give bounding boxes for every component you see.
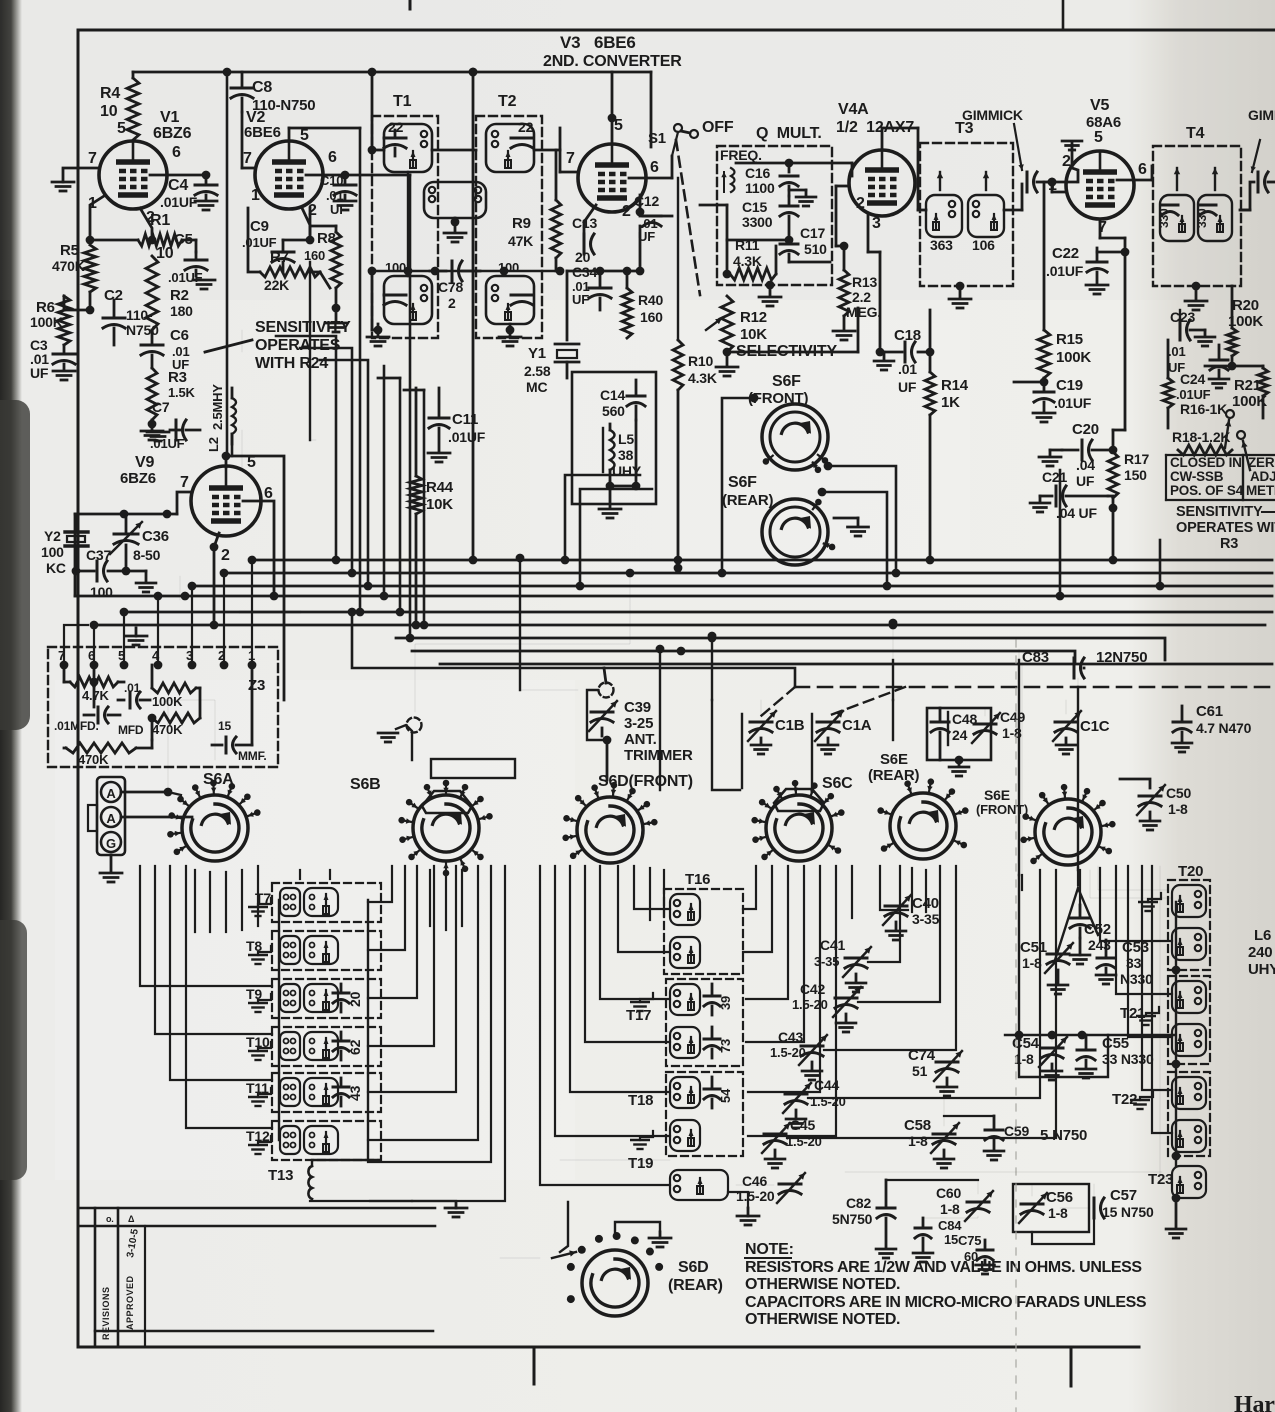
svg-text:.01UF: .01UF xyxy=(160,194,198,210)
junction xyxy=(86,236,95,245)
transformer T11 box xyxy=(272,1073,381,1112)
wire pin1 V1 xyxy=(90,196,104,240)
svg-text:C15: C15 xyxy=(742,199,767,215)
box closed-in divider xyxy=(1242,455,1244,500)
wire V5 pin6 xyxy=(1117,179,1152,182)
wire bus-to-c39 line xyxy=(352,612,795,687)
wire s6c fan6 xyxy=(748,866,836,1136)
svg-text:UF: UF xyxy=(898,379,917,395)
wire V9 pin2 xyxy=(214,533,219,625)
wire drop s6dcontacts xyxy=(659,649,661,790)
wire S1 dashes xyxy=(676,140,700,295)
capacitor C78 xyxy=(451,261,454,281)
wire bus 9 xyxy=(440,663,1272,666)
T7 coil left xyxy=(280,888,300,916)
wire T1 bot left xyxy=(371,271,374,330)
wire right drop 1 xyxy=(1059,470,1062,596)
wire box bottom xyxy=(635,420,638,486)
svg-text:C83: C83 xyxy=(1022,649,1049,666)
trimmer C42 xyxy=(835,997,857,1000)
wire pin6 col xyxy=(409,175,412,638)
svg-text:15: 15 xyxy=(218,719,231,733)
wire C83 drop xyxy=(1077,678,1079,687)
tube V3 xyxy=(578,144,646,212)
wire mid rail xyxy=(372,270,560,273)
ground C21 xyxy=(1039,496,1042,502)
title block divider xyxy=(144,1226,146,1347)
wire t22b feed xyxy=(1152,866,1172,1133)
wire T1-T2 link xyxy=(432,149,476,152)
ground T9 xyxy=(258,994,271,1003)
wire C8 col xyxy=(241,112,243,168)
svg-text:22: 22 xyxy=(518,119,534,135)
wire S6D rear left xyxy=(500,1257,540,1259)
svg-text:FREQ.: FREQ. xyxy=(720,147,762,163)
svg-text:OPERATES WITH: OPERATES WITH xyxy=(1176,520,1275,536)
terminal A2 xyxy=(101,807,121,827)
svg-text:CLOSED IN: CLOSED IN xyxy=(1170,455,1242,470)
junction bus xyxy=(626,569,635,578)
svg-text:R8: R8 xyxy=(317,230,336,247)
wire drop s6c xyxy=(711,636,713,700)
capacitor C53 xyxy=(1097,957,1115,960)
box C56 xyxy=(1013,1184,1089,1232)
scan shading3 xyxy=(530,320,970,600)
contact S6D rear xyxy=(631,1236,639,1244)
junction xyxy=(341,171,350,180)
ground T10 xyxy=(258,1042,271,1051)
svg-text:(REAR): (REAR) xyxy=(722,492,773,509)
svg-text:GIMM: GIMM xyxy=(1248,107,1275,123)
svg-text:2: 2 xyxy=(448,295,456,311)
wire bus 7 xyxy=(396,638,1165,660)
svg-text:C55: C55 xyxy=(1102,1035,1129,1052)
wire R14 xyxy=(929,310,932,372)
wire coupling gnd xyxy=(454,218,457,232)
svg-text:43: 43 xyxy=(347,1085,363,1101)
ground R8 xyxy=(335,288,338,322)
svg-text:.01: .01 xyxy=(124,681,141,695)
T16 coil b xyxy=(670,937,700,968)
junction xyxy=(306,236,315,245)
wire S6D rear feed xyxy=(560,1202,568,1252)
trimmer C1A xyxy=(817,721,839,724)
svg-text:.01UF: .01UF xyxy=(1176,387,1211,402)
terminal G xyxy=(101,832,121,852)
T3 coil right xyxy=(968,195,1004,237)
wire R10 xyxy=(677,178,679,340)
junction xyxy=(723,270,732,279)
T23 coil xyxy=(1172,1166,1206,1198)
svg-text:V4A: V4A xyxy=(838,101,869,118)
wire R17 xyxy=(1112,430,1115,452)
svg-text:L6: L6 xyxy=(1254,927,1271,944)
svg-text:R10: R10 xyxy=(688,353,713,369)
wire bus 6 xyxy=(94,624,1265,627)
wire bottom rail xyxy=(886,1179,978,1181)
svg-text:10K: 10K xyxy=(426,496,453,513)
transformer T16 box xyxy=(664,889,743,974)
wire s6d fan3 xyxy=(570,866,670,1092)
T21 coil b xyxy=(1172,1024,1206,1056)
svg-text:R40: R40 xyxy=(638,292,663,308)
coil FREQ xyxy=(731,168,735,192)
wire pin7 V2 xyxy=(241,112,244,168)
wire riser 2 xyxy=(300,348,352,573)
resistor R3 1.5K xyxy=(147,368,157,420)
wire C16 gnd xyxy=(789,189,806,192)
capacitor C22 xyxy=(1087,261,1107,264)
svg-text:C82: C82 xyxy=(846,1195,871,1211)
svg-text:UF: UF xyxy=(1076,473,1095,489)
wire drop 1019 xyxy=(1018,660,1020,875)
wire fan xyxy=(170,866,272,1080)
wire T2 right out xyxy=(534,149,560,152)
svg-text:.01UF: .01UF xyxy=(168,270,203,285)
wire row 1160 xyxy=(560,1159,670,1161)
capacitor C75 xyxy=(977,1249,993,1252)
transformer T20 box xyxy=(1168,880,1210,970)
svg-text:CAPACITORS ARE IN MICRO-MICRO: CAPACITORS ARE IN MICRO-MICRO FARADS UNL… xyxy=(745,1294,1147,1311)
svg-text:C24: C24 xyxy=(1180,371,1205,387)
svg-text:5: 5 xyxy=(117,120,126,137)
svg-text:Z3: Z3 xyxy=(248,677,265,694)
wire nest long xyxy=(412,866,505,1201)
wire t22 feed xyxy=(1142,866,1172,1090)
wire s6d fan6 xyxy=(618,866,670,952)
ground T21 xyxy=(1146,1007,1159,1016)
svg-text:A: A xyxy=(106,786,116,801)
T17 coil b xyxy=(670,1027,700,1058)
T12 coil right xyxy=(304,1126,338,1154)
svg-text:C1A: C1A xyxy=(842,717,872,734)
svg-text:R4: R4 xyxy=(100,85,120,102)
contact S6D rear xyxy=(567,1295,575,1303)
resistor R6 100K xyxy=(58,296,70,345)
wire R8 top xyxy=(335,226,338,232)
wire loop D xyxy=(565,475,640,560)
trimmer C56 xyxy=(1021,1203,1043,1206)
svg-text:10: 10 xyxy=(156,245,174,262)
svg-text:7: 7 xyxy=(88,150,97,167)
wire bus 3 xyxy=(192,585,1272,588)
T4 caps xyxy=(1162,204,1178,207)
wire c56 rail xyxy=(1032,1218,1094,1244)
svg-text:470K: 470K xyxy=(78,752,109,767)
wire riser 6 xyxy=(423,390,426,625)
trimmer C60 xyxy=(967,1201,989,1204)
junction Z3 pins xyxy=(60,661,69,670)
svg-text:C84: C84 xyxy=(938,1218,962,1233)
svg-text:L5: L5 xyxy=(618,431,634,447)
svg-text:1-8: 1-8 xyxy=(908,1133,928,1149)
wire S6F rear gnd xyxy=(834,517,858,520)
trimmer C58 xyxy=(933,1133,955,1136)
ground C20 xyxy=(1049,450,1052,456)
trimmer C74 xyxy=(936,1061,958,1064)
svg-text:C45: C45 xyxy=(790,1117,815,1133)
capacitor T11 cap xyxy=(333,1086,349,1089)
svg-text:METE: METE xyxy=(1246,483,1275,498)
wire C1B up xyxy=(760,700,762,716)
wire C13 rail xyxy=(567,270,640,273)
rotary switch S6D rear xyxy=(582,1250,648,1316)
ground T3 xyxy=(959,286,962,298)
capacitor C2 xyxy=(103,317,125,320)
svg-text:1.5-20: 1.5-20 xyxy=(770,1045,806,1060)
wire pin2 V2 down xyxy=(302,208,310,240)
wire R20 link xyxy=(1231,356,1234,366)
wire nest xyxy=(368,866,405,950)
rotary switch S6A xyxy=(182,795,248,861)
svg-text:3300: 3300 xyxy=(742,214,773,230)
capacitor C9 xyxy=(272,251,294,254)
svg-text:OTHERWISE NOTED.: OTHERWISE NOTED. xyxy=(745,1311,900,1328)
wire T19-gnd xyxy=(728,1192,748,1208)
svg-text:5: 5 xyxy=(300,127,309,144)
wire fan xyxy=(140,866,272,986)
svg-text:C1B: C1B xyxy=(775,717,805,734)
box C48 C49 xyxy=(927,708,991,760)
svg-text:A: A xyxy=(106,811,116,826)
junction xyxy=(202,171,211,180)
capacitor C3 xyxy=(63,345,66,352)
ground C7 xyxy=(147,431,169,434)
wire V9 plate loop xyxy=(226,456,284,700)
svg-text:Har: Har xyxy=(1234,1392,1275,1412)
wire nest xyxy=(368,866,491,1162)
svg-text:T1: T1 xyxy=(393,93,412,110)
wire S6C feed xyxy=(712,700,740,790)
capacitor Z3 .01 xyxy=(129,692,132,708)
contact S6F front xyxy=(763,458,770,465)
wire t23 feed xyxy=(1160,866,1172,1179)
svg-text:V9: V9 xyxy=(135,454,154,471)
coupling coil box xyxy=(424,182,486,218)
svg-text:5N750: 5N750 xyxy=(832,1211,873,1227)
capacitor C21 xyxy=(1055,486,1058,506)
rotary switch S6E rear xyxy=(890,793,956,859)
resistor R16 xyxy=(1163,378,1173,408)
svg-text:470K: 470K xyxy=(52,258,85,274)
wire V9 pin6 xyxy=(243,501,274,596)
svg-text:10: 10 xyxy=(100,103,118,120)
ground T17 xyxy=(640,993,653,1002)
svg-text:C56: C56 xyxy=(1046,1189,1073,1206)
T20 coil a xyxy=(1172,885,1206,917)
wire s6c fan5 xyxy=(748,866,820,1092)
svg-text:100K: 100K xyxy=(30,314,63,330)
wire S6C top hat xyxy=(774,789,824,811)
wire V3 top xyxy=(611,72,614,144)
svg-text:8-50: 8-50 xyxy=(133,547,161,563)
svg-text:4.7 N470: 4.7 N470 xyxy=(1196,720,1252,736)
ground C52 xyxy=(1070,954,1090,957)
transformer T21 box xyxy=(1168,976,1210,1064)
svg-text:Y2: Y2 xyxy=(44,528,61,544)
wire col 345 xyxy=(344,127,346,129)
svg-text:2: 2 xyxy=(856,195,865,212)
svg-text:UF: UF xyxy=(30,365,49,381)
wire s6d fan5 xyxy=(600,866,670,999)
wire S1 stub xyxy=(672,132,678,156)
wire T stack left rail xyxy=(278,900,280,1140)
svg-text:.01UF: .01UF xyxy=(1046,263,1084,279)
capacitor C18 xyxy=(904,342,907,362)
wire dash diag C1B xyxy=(761,687,795,716)
transformer T22 box xyxy=(1168,1072,1210,1156)
svg-text:C49: C49 xyxy=(1000,709,1025,725)
svg-text:4.3K: 4.3K xyxy=(733,253,762,269)
svg-text:R9: R9 xyxy=(512,215,531,232)
transformer T9 box xyxy=(272,979,381,1018)
title block line xyxy=(95,1330,433,1333)
resistor R14 1K xyxy=(925,372,935,415)
rotary switch S6E front xyxy=(1035,799,1101,865)
svg-text:T13: T13 xyxy=(268,1167,293,1184)
junction xyxy=(223,68,232,77)
wire R44 xyxy=(415,388,418,476)
ground T8 xyxy=(258,946,271,955)
transformer T3 box xyxy=(920,143,1013,286)
ground T18 xyxy=(640,1131,653,1140)
svg-text:C39: C39 xyxy=(624,699,651,716)
wire loop A xyxy=(828,466,896,573)
inductor L5 xyxy=(610,430,615,470)
svg-text:100: 100 xyxy=(90,584,113,600)
svg-text:1.5K: 1.5K xyxy=(168,385,195,400)
wire bus 5 xyxy=(124,611,1272,614)
wire nest xyxy=(368,866,434,1046)
contact S6D rear xyxy=(646,1248,654,1256)
T19 coil xyxy=(670,1170,728,1200)
capacitor C16 xyxy=(780,175,798,178)
wire R16 line xyxy=(1167,340,1170,378)
svg-text:N330: N330 xyxy=(1120,971,1153,987)
svg-text:C6: C6 xyxy=(170,327,189,344)
svg-text:C57: C57 xyxy=(1110,1187,1137,1204)
box Z3 xyxy=(48,647,278,767)
wire c58 col xyxy=(943,1116,945,1126)
ground T20 xyxy=(1148,893,1161,902)
contact S6D rear xyxy=(655,1263,663,1271)
junction xyxy=(332,304,341,313)
transformer T17 box xyxy=(666,979,743,1066)
svg-text:R16-1K: R16-1K xyxy=(1180,401,1227,417)
svg-text:o.: o. xyxy=(106,1214,114,1224)
capacitor C15 xyxy=(780,205,798,208)
trimmer C46 xyxy=(779,1183,801,1186)
svg-text:REVISIONS: REVISIONS xyxy=(101,1286,111,1340)
wire V2 top rail col xyxy=(359,128,362,612)
wire bus 1 xyxy=(252,559,1272,562)
ground L5 xyxy=(609,482,612,508)
resistor R10 4.3K xyxy=(673,340,683,390)
wire Z3 feed verticals xyxy=(93,625,95,665)
junction xyxy=(86,306,95,315)
wire nest xyxy=(368,866,478,1140)
svg-text:6BE6: 6BE6 xyxy=(244,124,281,141)
wire V5 pin2 hook xyxy=(1072,168,1078,182)
wire s6c fan4 xyxy=(746,866,804,1042)
ground T2 bottom xyxy=(509,324,512,336)
rotary switch S6F rear xyxy=(762,499,828,565)
svg-text:10K: 10K xyxy=(740,326,767,343)
wire A2 out xyxy=(121,816,192,819)
wire V4A plate xyxy=(881,128,884,150)
svg-text:T23: T23 xyxy=(1148,1171,1173,1188)
wire V1 col a xyxy=(226,72,229,456)
svg-text:T17: T17 xyxy=(626,1007,651,1024)
resistor R40 160 xyxy=(622,288,632,338)
wire S6E hat xyxy=(892,700,894,740)
svg-text:S6B: S6B xyxy=(350,776,381,793)
capacitor C4 xyxy=(205,175,208,183)
trimmer C50 xyxy=(1139,795,1161,798)
T4 arrows xyxy=(1176,168,1178,190)
svg-text:C20: C20 xyxy=(1072,421,1099,438)
svg-text:R3: R3 xyxy=(168,369,187,386)
wire qmult mid xyxy=(727,239,789,242)
junction xyxy=(368,146,377,155)
svg-text:1100: 1100 xyxy=(745,180,775,196)
T10 coil right xyxy=(304,1032,338,1060)
svg-text:62: 62 xyxy=(347,1039,363,1055)
svg-text:1-8: 1-8 xyxy=(1168,801,1188,817)
svg-text:MEG.: MEG. xyxy=(846,304,881,320)
tube V1 xyxy=(99,141,167,209)
T11 coil right xyxy=(304,1078,338,1106)
wire s6ef t21 xyxy=(1116,866,1172,994)
junction xyxy=(368,267,377,276)
wire C39 frame xyxy=(587,690,607,740)
resistor R1 xyxy=(138,234,182,246)
wire T3 right out xyxy=(1004,209,1022,212)
ground T1 bottom xyxy=(377,324,380,336)
capacitor Z3 .01MFD xyxy=(97,707,100,723)
svg-text:OTHERWISE NOTED.: OTHERWISE NOTED. xyxy=(745,1276,900,1293)
wire A1 out xyxy=(121,791,168,794)
wire T1 top feed xyxy=(372,149,384,152)
T17 cap a xyxy=(704,995,720,998)
ground R12 xyxy=(726,352,729,366)
wire V5 pin1 xyxy=(1051,182,1054,192)
svg-text:R15: R15 xyxy=(1056,331,1083,348)
svg-text:6: 6 xyxy=(264,485,273,502)
svg-text:T16: T16 xyxy=(685,871,710,888)
T2 top tank xyxy=(486,124,534,172)
svg-text:C61: C61 xyxy=(1196,703,1223,720)
capacitor C34 xyxy=(589,287,611,290)
svg-text:150: 150 xyxy=(1124,467,1147,483)
capacitor C84 xyxy=(915,1227,931,1230)
wire V3 cathode xyxy=(584,205,596,222)
wire s6c fan2 xyxy=(743,866,772,952)
wire V1 col b xyxy=(241,430,243,470)
svg-text:560: 560 xyxy=(602,403,625,419)
svg-text:2.58: 2.58 xyxy=(524,363,551,379)
wire V5 pin7 xyxy=(1099,219,1102,238)
T3 coil left xyxy=(926,195,962,237)
svg-text:C13: C13 xyxy=(572,215,597,231)
svg-text:7: 7 xyxy=(243,150,252,167)
ground pin7 V1 xyxy=(62,170,65,182)
capacitor C24 xyxy=(1210,359,1228,362)
border frame top line xyxy=(78,29,1275,32)
svg-text:240: 240 xyxy=(1248,944,1272,961)
svg-text:51: 51 xyxy=(912,1063,928,1079)
svg-text:6: 6 xyxy=(172,144,181,161)
